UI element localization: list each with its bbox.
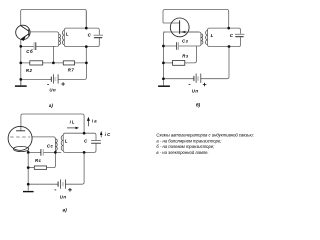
svg-text:в): в)	[63, 207, 68, 212]
ground c	[23, 191, 34, 193]
ground a	[20, 79, 22, 85]
wire tank loop a	[64, 28, 99, 46]
wire battery row c	[28, 152, 84, 184]
svg-text:а - на биполярном транзисторе;: а - на биполярном транзисторе;	[156, 138, 222, 143]
svg-text:i L: i L	[70, 119, 75, 124]
wire riser node X a	[52, 46, 54, 63]
wire tank riser top a	[85, 11, 87, 28]
wire tank top c	[63, 133, 96, 140]
emitter arrow a	[21, 36, 26, 41]
plus sign a	[61, 82, 65, 86]
svg-text:C: C	[84, 138, 88, 143]
minus sign c	[55, 189, 57, 191]
node dots c	[27, 132, 86, 186]
svg-text:б): б)	[196, 101, 201, 107]
inductor winding right a (tank)	[63, 30, 65, 45]
capacitor Cb plates	[33, 42, 35, 50]
current arrow ia	[87, 121, 89, 127]
wire cathode lead c	[27, 150, 29, 190]
svg-text:Uп: Uп	[60, 194, 67, 199]
wire tank bottom b	[208, 37, 241, 46]
svg-text:а): а)	[49, 103, 54, 108]
battery GB a	[51, 74, 58, 83]
minus sign b	[189, 83, 191, 85]
tube VL c	[8, 126, 32, 151]
inductor winding left c	[54, 139, 56, 151]
wire Rc riser c	[47, 152, 56, 167]
resistor R7	[63, 61, 74, 65]
wire top rail b	[163, 10, 229, 29]
transistor VT a	[16, 25, 30, 39]
svg-text:б - на полевом транзисторе;: б - на полевом транзисторе;	[156, 144, 215, 149]
inductor winding left b	[200, 34, 202, 44]
resistor Rc	[34, 166, 46, 169]
svg-text:R7: R7	[68, 68, 75, 73]
inductor winding left a	[57, 34, 59, 47]
svg-text:Uп: Uп	[49, 87, 56, 92]
wire base a	[29, 32, 59, 34]
svg-text:L: L	[211, 33, 214, 38]
battery GB c	[58, 179, 65, 188]
capacitor Cc plates c	[40, 149, 42, 156]
current arrow iC	[100, 135, 102, 138]
node dots a	[19, 27, 87, 81]
wire battery row a	[21, 63, 87, 80]
anode bar	[16, 130, 25, 132]
wire Cz row b	[163, 44, 201, 46]
resistor Rz	[173, 60, 185, 65]
wire Rz riser b	[185, 46, 197, 63]
wire gate corner down b	[163, 32, 165, 46]
svg-text:Rс: Rс	[35, 158, 42, 163]
svg-text:в - на электронной лампе.: в - на электронной лампе.	[156, 150, 208, 155]
wire source b	[180, 31, 199, 33]
capacitor C plates c	[91, 140, 101, 142]
capacitor C plates b	[235, 33, 244, 35]
capacitor Cz plates b	[176, 42, 178, 50]
svg-text:R2: R2	[26, 68, 33, 73]
wire Cc row c	[28, 151, 55, 153]
plus sign c	[68, 188, 72, 192]
battery GB b	[194, 74, 201, 83]
svg-text:i C: i C	[105, 132, 111, 137]
wire Cb left	[21, 45, 34, 47]
svg-text:i а: i а	[92, 118, 97, 123]
inductor winding right b (tank)	[207, 30, 209, 45]
current arrow iL	[67, 127, 76, 129]
wire tank top b	[208, 28, 241, 34]
svg-text:Cб: Cб	[26, 49, 33, 54]
svg-text:Схемы автогенераторов с индукт: Схемы автогенераторов с индуктивной связ…	[156, 133, 253, 138]
wire winding bottom to tank c	[55, 144, 96, 153]
wire top rail c	[21, 114, 84, 133]
wire drain b	[163, 22, 180, 24]
capacitor C plates a	[94, 34, 103, 36]
plus sign b	[203, 83, 207, 87]
svg-text:Cс: Cс	[47, 144, 54, 149]
wire emitter / left spine a	[20, 39, 22, 85]
cathode	[13, 146, 28, 151]
minus sign a	[47, 84, 49, 86]
wire left spine b	[162, 46, 164, 86]
grid dashes	[10, 136, 30, 138]
wire Cb right to winding bottom	[36, 45, 57, 47]
wire grid to winding c	[32, 137, 55, 139]
wire top rail a	[21, 9, 87, 28]
wire resistor row a	[21, 62, 87, 64]
inductor winding right c (tank)	[62, 135, 64, 150]
wire tank bottom riser a	[85, 47, 87, 63]
svg-text:L: L	[66, 32, 69, 37]
svg-text:C: C	[88, 32, 92, 37]
svg-text:Rз: Rз	[182, 53, 189, 58]
resistor R2	[30, 61, 43, 65]
transistor VT b (FET)	[170, 18, 189, 37]
wire gate-source line b	[163, 32, 201, 34]
svg-text:Cз: Cз	[182, 39, 189, 44]
ground b	[158, 85, 170, 87]
node dots b	[162, 27, 230, 80]
svg-text:C: C	[230, 33, 234, 38]
source arrow b	[180, 31, 185, 33]
svg-text:L: L	[65, 138, 68, 143]
wire Rz row b	[163, 62, 172, 64]
wire battery row b	[163, 47, 229, 79]
svg-text:Uп: Uп	[192, 89, 199, 94]
wire Rc row c	[28, 167, 34, 169]
